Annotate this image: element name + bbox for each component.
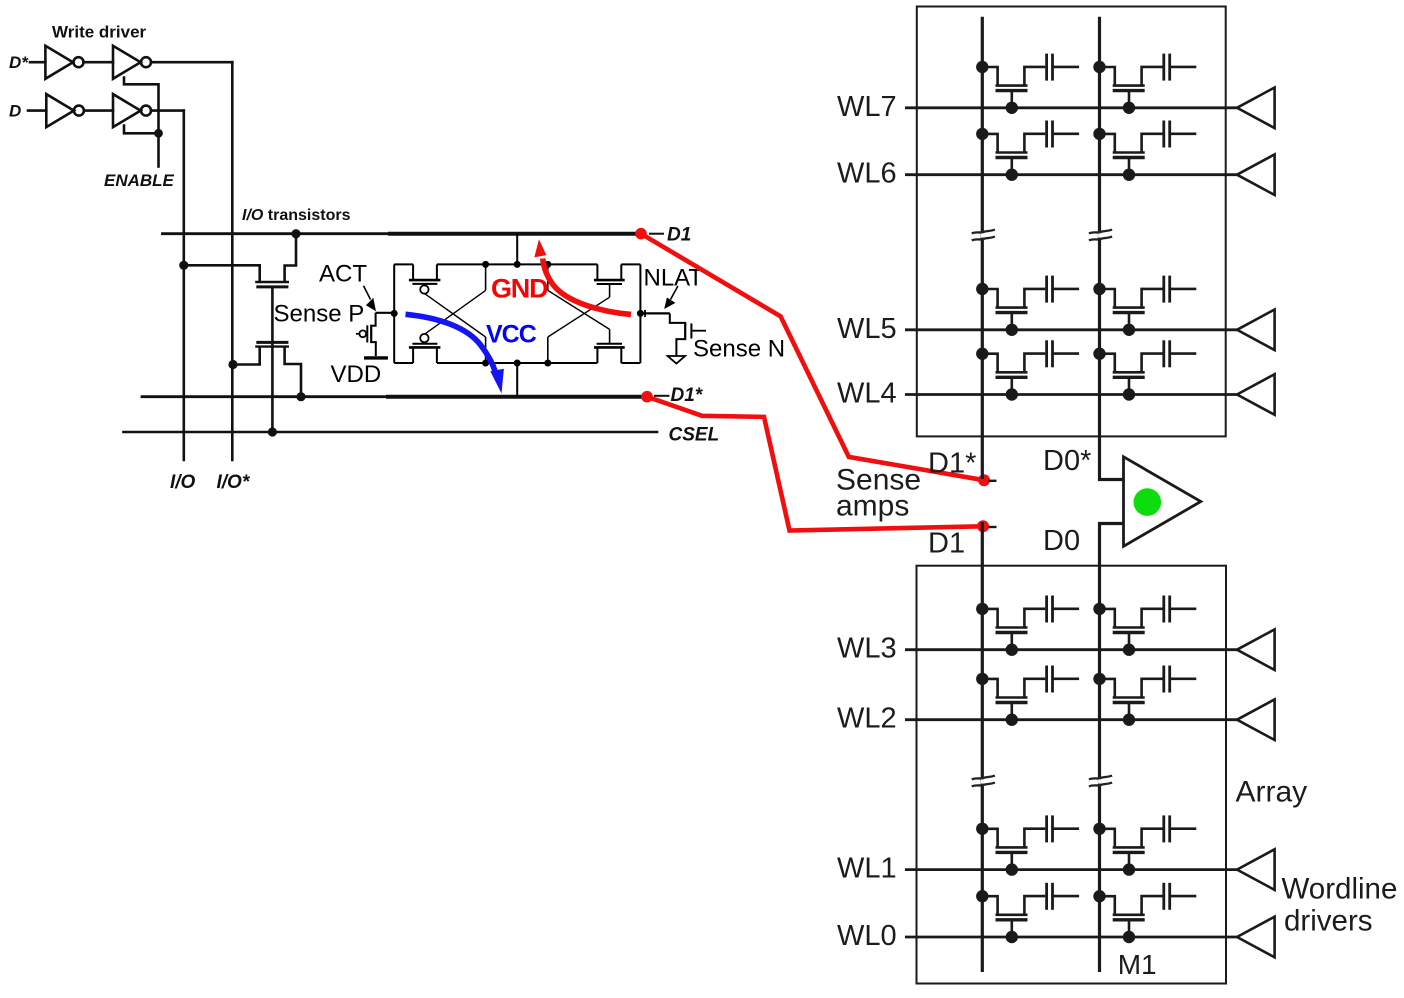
label D1*: [655, 395, 669, 397]
node red dot at right D1* bitline: [978, 474, 990, 486]
node dot I/O x source wire: [179, 261, 188, 270]
power VDD bar: [364, 356, 388, 359]
memory cell WL7/D1*: [976, 54, 1079, 114]
svg-text:I/O: I/O: [170, 472, 196, 493]
svg-text:D0*: D0*: [1043, 445, 1091, 477]
svg-text:Write driver: Write driver: [52, 23, 147, 42]
inverter U1 (D* first stage): [45, 46, 73, 79]
svg-text:WL3: WL3: [837, 633, 897, 665]
inverter U3 (D first stage): [46, 94, 74, 127]
wire I/O* vertical column: [231, 62, 234, 460]
transistor M3 (upper-left PMOS): [413, 264, 437, 280]
bitline break D0* upper: [1089, 230, 1112, 241]
svg-text:amps: amps: [836, 490, 909, 523]
svg-text:WL0: WL0: [837, 920, 897, 952]
ACT arrow: [364, 286, 371, 300]
memory cell WL4/D0*: [1093, 340, 1196, 400]
NLAT arrow: [671, 286, 678, 300]
svg-text:WL6: WL6: [837, 158, 897, 190]
wire D1 dataline: [163, 232, 391, 235]
upper array box: [917, 7, 1226, 437]
svg-text:WL2: WL2: [837, 703, 897, 735]
wordline WL5: [905, 328, 1237, 331]
transistor M5 (lower-left PMOS): [413, 348, 437, 364]
memory cell WL5/D1*: [976, 276, 1079, 336]
svg-text:WL5: WL5: [837, 313, 897, 345]
wire latch top rail: [394, 263, 640, 265]
memory cell WL1/D0: [1093, 815, 1196, 875]
black stub right of upper red dot: [989, 480, 997, 482]
svg-text:VCC: VCC: [486, 321, 537, 349]
wire latch bottom rail: [394, 362, 640, 364]
memory cell WL4/D1*: [976, 340, 1079, 400]
bitline break D1* upper: [972, 230, 995, 241]
wordline driver WL6: [1237, 154, 1275, 195]
transistor Sense P (ACT PMOS): [376, 312, 395, 314]
node red dot at D1* end: [641, 391, 653, 403]
wire latch right rail: [639, 264, 641, 363]
wordline WL4: [905, 393, 1237, 396]
transistor M4 (upper-right NMOS): [597, 264, 621, 280]
memory cell WL5/D0*: [1093, 276, 1196, 336]
svg-text:WL4: WL4: [837, 378, 897, 410]
memory cell WL1/D1: [976, 815, 1079, 875]
svg-text:WL7: WL7: [837, 91, 897, 123]
wire CSEL line: [124, 431, 658, 434]
wire U2 output to I/O* column: [151, 61, 232, 64]
svg-text:Array: Array: [1236, 776, 1308, 809]
svg-text:D*: D*: [9, 53, 29, 72]
wordline driver WL0: [1237, 917, 1275, 958]
wire bitline D0* (upper): [1100, 17, 1124, 480]
wire D1* dataline: [142, 395, 388, 398]
node ENABLE junction: [154, 129, 163, 138]
svg-text:VDD: VDD: [331, 361, 382, 388]
svg-text:I/O transistors: I/O transistors: [242, 207, 351, 224]
memory cell WL2/D1: [976, 666, 1079, 726]
memory cell WL0/D0: [1093, 883, 1196, 943]
svg-text:Sense N: Sense N: [693, 336, 785, 363]
svg-text:D1*: D1*: [928, 448, 976, 480]
wordline driver WL7: [1237, 88, 1275, 129]
wordline WL7: [905, 106, 1237, 109]
wire bitline D1* (upper): [981, 17, 984, 479]
tristate inverter U4 (D output stage): [113, 94, 141, 127]
node dot I/O* x Q2 source: [228, 360, 237, 369]
svg-text:D1*: D1*: [671, 385, 704, 406]
black stub right of lower red dot: [989, 526, 997, 528]
svg-text:D: D: [9, 101, 21, 120]
wire cross-couple diagonals: [424, 290, 609, 337]
transistor Q1 (I/O transistor, D1 side): [258, 265, 261, 281]
node red dot at right D1 bitline: [977, 520, 989, 532]
wire D input: [28, 109, 46, 112]
node latch rail dots: [391, 261, 644, 367]
bitline break D1 lower: [972, 776, 995, 787]
svg-text:D1: D1: [667, 225, 691, 246]
svg-text:M1: M1: [1118, 949, 1157, 980]
svg-text:CSEL: CSEL: [669, 425, 720, 446]
wire bitline D1 (lower): [981, 522, 984, 972]
svg-text:D0: D0: [1043, 525, 1080, 557]
wire enable tap of U4: [124, 126, 159, 134]
svg-text:GND: GND: [491, 274, 548, 304]
svg-text:ENABLE: ENABLE: [104, 171, 175, 190]
transistor M6 (lower-right NMOS): [597, 348, 621, 364]
wordline driver WL3: [1237, 629, 1275, 670]
svg-text:I/O*: I/O*: [217, 472, 251, 493]
lower array box: [917, 566, 1227, 984]
svg-text:NLAT: NLAT: [644, 265, 704, 292]
svg-text:Wordline: Wordline: [1282, 873, 1398, 906]
wordline driver WL4: [1237, 374, 1275, 415]
wordline WL1: [905, 868, 1237, 871]
wire latch to D1*: [516, 363, 518, 397]
wire U3 to U4: [84, 109, 113, 112]
wire I/O to Q1 source: [184, 264, 260, 267]
memory cell WL3/D0: [1093, 596, 1196, 656]
memory cell WL2/D0: [1093, 666, 1196, 726]
memory cell WL6/D1*: [976, 121, 1079, 181]
op-amp sense amplifier triangle: [1124, 457, 1201, 547]
transistor Q2 (I/O transistor, D1* side): [258, 341, 287, 344]
wordline WL6: [905, 173, 1237, 176]
red link D1* to sense amps: [647, 397, 983, 531]
memory cell WL6/D0*: [1093, 121, 1196, 181]
wordline WL0: [905, 936, 1237, 939]
wire latch left rail: [393, 264, 395, 363]
wordline driver WL1: [1237, 849, 1275, 890]
memory cell WL0/D1 (M1): [976, 883, 1079, 943]
transistor Sense N (NLAT NMOS): [640, 312, 669, 314]
bitline break D0 lower: [1089, 776, 1112, 787]
wordline driver WL5: [1237, 310, 1275, 351]
svg-text:Sense P: Sense P: [274, 301, 365, 328]
svg-text:drivers: drivers: [1284, 905, 1373, 938]
svg-text:D1: D1: [928, 528, 965, 560]
ground symbol: [668, 356, 686, 364]
wire cross-couple stubs: [486, 264, 548, 363]
label D1: [650, 233, 663, 235]
GND current arrow (red curve): [543, 259, 631, 315]
tristate inverter U2 (D* output stage): [113, 46, 141, 79]
wire U1 to U2: [84, 61, 114, 64]
memory cell WL7/D0*: [1093, 54, 1196, 114]
wire ENABLE stub: [157, 133, 160, 166]
wire latch to D1: [516, 234, 518, 265]
svg-text:ACT: ACT: [319, 260, 367, 287]
wordline WL3: [905, 648, 1237, 651]
wire enable tap of U2: [124, 78, 159, 134]
wire U4 output to I/O column: [151, 109, 184, 112]
memory cell WL3/D1: [976, 596, 1079, 656]
wordline driver WL2: [1237, 699, 1275, 740]
wire CSEL gate column: [271, 288, 274, 432]
node dot on CSEL: [268, 427, 277, 436]
wire D* input: [30, 61, 45, 64]
wordline WL2: [905, 718, 1237, 721]
VCC current arrow (blue curve): [406, 314, 496, 371]
green state dot: [1134, 488, 1162, 516]
node dot on D1* at Q2 drain: [296, 392, 305, 401]
node red dot at D1 end: [635, 228, 647, 240]
wire bitline D0 (lower): [1100, 524, 1124, 973]
svg-text:WL1: WL1: [837, 853, 897, 885]
node dot on D1 at Q1 drain: [291, 229, 300, 238]
red link D1 to sense amps: [641, 234, 984, 481]
wire I/O vertical column: [183, 111, 186, 460]
